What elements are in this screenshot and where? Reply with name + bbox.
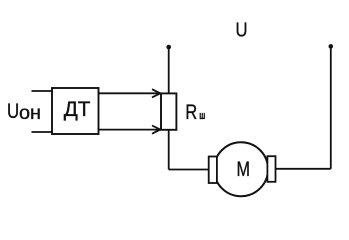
resistor Rш: [161, 93, 176, 129]
terminal node: [166, 45, 171, 50]
svg-text:M: M: [237, 157, 251, 181]
wire: [330, 46, 332, 168]
wire: [168, 47, 170, 93]
wire: [32, 90, 53, 92]
terminal node: [329, 44, 334, 49]
wire: [168, 130, 170, 170]
svg-text:ш: ш: [199, 110, 205, 122]
svg-text:U: U: [7, 100, 19, 123]
wire arrow: [99, 89, 161, 97]
brush left: [209, 157, 217, 184]
brush right: [267, 156, 275, 182]
label Rш: [185, 100, 205, 124]
current sensor ДТ: [52, 88, 99, 134]
svg-text:R: R: [185, 100, 197, 124]
node Uон label: [7, 100, 41, 124]
svg-text:U: U: [236, 20, 248, 42]
wire: [169, 169, 209, 171]
wire arrow: [99, 126, 161, 134]
wire: [32, 131, 53, 133]
motor M: [214, 142, 268, 196]
wire: [276, 168, 331, 170]
svg-text:он: он: [19, 103, 41, 124]
svg-text:ДТ: ДТ: [64, 98, 91, 121]
